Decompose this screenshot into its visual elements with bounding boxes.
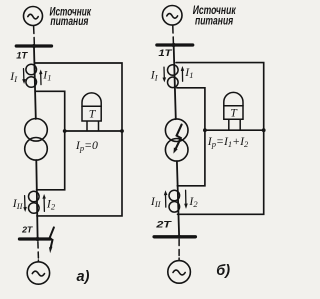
svg-text:1Т: 1Т — [16, 51, 29, 61]
svg-text:Т: Т — [230, 105, 238, 119]
svg-text:III: III — [150, 194, 162, 209]
svg-text:Iр=I1+I2: Iр=I1+I2 — [207, 134, 249, 149]
svg-text:Iр=0: Iр=0 — [75, 138, 98, 153]
svg-text:I2: I2 — [188, 194, 198, 209]
svg-text:II: II — [9, 69, 18, 84]
svg-text:1Т: 1Т — [158, 48, 173, 58]
svg-text:б): б) — [216, 263, 230, 279]
svg-text:I1: I1 — [42, 68, 51, 83]
svg-text:Т: Т — [89, 107, 97, 121]
svg-text:питания: питания — [195, 14, 233, 28]
svg-text:питания: питания — [50, 14, 88, 28]
svg-text:2Т: 2Т — [21, 225, 33, 235]
svg-text:2Т: 2Т — [155, 220, 173, 230]
svg-text:I1: I1 — [184, 65, 193, 80]
svg-text:I2: I2 — [46, 197, 56, 212]
svg-text:II: II — [150, 68, 159, 83]
svg-text:III: III — [12, 196, 24, 211]
svg-text:а): а) — [77, 269, 90, 285]
